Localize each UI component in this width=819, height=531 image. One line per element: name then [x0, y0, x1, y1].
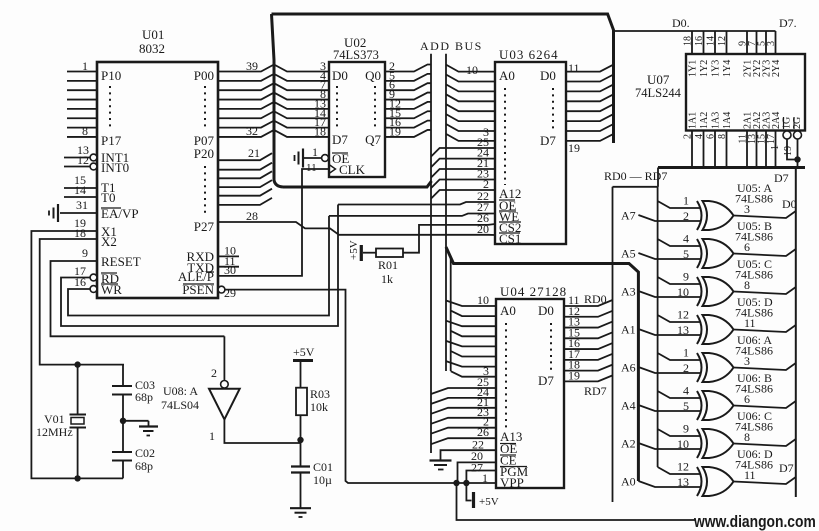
wire P12 stub — [67, 89, 97, 91]
capacitor C03 68p — [122, 365, 124, 386]
wire +5V to R01 — [363, 252, 376, 254]
wire P15 stub — [67, 117, 97, 119]
svg-text:2A4: 2A4 — [771, 112, 782, 129]
wire ADD bus to U03 A9 — [431, 159, 495, 168]
wire P03 to U02 D3 — [218, 93, 329, 100]
wire U04 D5 to read bus — [564, 354, 613, 360]
svg-text:D7: D7 — [538, 373, 554, 388]
svg-text:1: 1 — [209, 429, 215, 443]
svg-text:U04 27128: U04 27128 — [500, 284, 567, 299]
svg-text:Q0: Q0 — [365, 68, 381, 83]
svg-text:3: 3 — [744, 202, 750, 216]
svg-text:D0: D0 — [540, 68, 556, 83]
svg-text:31: 31 — [76, 198, 88, 212]
svg-text:Q7: Q7 — [365, 132, 381, 147]
wire U07 bottom pin to bus at x=747 — [746, 131, 748, 168]
svg-text:A3: A3 — [621, 285, 636, 299]
wire U07 bottom pin to bus at x=703.5 — [703, 131, 705, 168]
wire output of U05: A to D line — [734, 211, 796, 218]
svg-text:6: 6 — [744, 392, 750, 406]
wire ADD bus to U03 A2 — [446, 84, 495, 91]
U02 CLK triangle mark — [329, 165, 336, 174]
wire Q2 to ADD BUS — [385, 83, 431, 90]
bus thick link ADD BUS to XOR A-line — [446, 247, 638, 481]
wire P01 to U02 D1 — [218, 74, 329, 81]
wire U07 bottom pin to bus at x=756.5 — [756, 131, 758, 168]
svg-text:+5V: +5V — [479, 496, 499, 508]
wire VPP pin — [456, 482, 496, 484]
wire U08 output to RESET line — [223, 336, 225, 380]
svg-text:10µ: 10µ — [313, 473, 332, 487]
svg-text:1A1: 1A1 — [688, 112, 699, 129]
wire WR feed to U03 WE — [329, 214, 495, 216]
svg-text:D7: D7 — [774, 171, 789, 185]
wire X2 to crystal top — [40, 239, 124, 365]
wire Q6 to ADD BUS — [385, 121, 431, 128]
wire Q3 to ADD BUS — [385, 93, 431, 100]
svg-text:A6: A6 — [621, 361, 636, 375]
wire P11 stub — [67, 80, 97, 82]
wire INT0 stub — [64, 166, 90, 168]
wire R03 to node — [300, 415, 302, 440]
wire RD input to U05: A — [658, 201, 700, 208]
svg-text:2: 2 — [211, 366, 217, 380]
wire Q5 to ADD BUS — [385, 111, 431, 118]
bus bar RD right line — [657, 187, 659, 467]
pin bubble U02 OE — [322, 155, 329, 162]
wire ADD bus to U04 A6 — [446, 361, 496, 367]
bus U07 input bus (thick) to XOR outputs — [658, 166, 805, 169]
wire T1 stub — [64, 187, 97, 189]
pin bubble INT0 — [90, 163, 97, 170]
wire output of U06: D to D line — [734, 477, 796, 484]
op IC U03 6264 RAM body — [495, 62, 566, 244]
wire P13 stub — [67, 99, 97, 101]
op IC U02 74LS373 latch body — [329, 62, 385, 177]
wire WR from U01 to U03 WE — [68, 216, 329, 316]
pin bubble U08 output — [221, 381, 229, 389]
svg-text:9: 9 — [683, 422, 689, 436]
wire U04 D6 to read bus — [564, 365, 613, 371]
wire data bus to U07 pin at x=747 — [746, 31, 748, 54]
wire A input to U06: B — [638, 405, 701, 411]
wire ADD bus to U04 A7 — [451, 371, 496, 377]
wire A input to U05: C — [638, 291, 701, 297]
wire ADD bus to U04 A1 — [451, 311, 496, 317]
svg-text:R01: R01 — [378, 258, 398, 272]
svg-text:D7.: D7. — [779, 16, 797, 30]
wire ADD bus to U04 A3 — [451, 331, 496, 337]
wire ADD bus to U03 A5 — [446, 114, 495, 121]
bus bar RD top edge — [613, 186, 658, 188]
svg-text:A5: A5 — [621, 247, 636, 261]
svg-text:1A3: 1A3 — [711, 112, 722, 129]
wire T0 stub — [64, 196, 97, 198]
xor gate U06: D 74LS86 — [697, 467, 702, 496]
wire ADD bus to U04 A0 — [446, 301, 496, 307]
wire ADD bus to U03 A3 — [446, 94, 495, 101]
wire U07 bottom pin to bus at x=715 — [714, 131, 716, 168]
wire RD input to U05: C — [658, 277, 700, 284]
svg-text:1A4: 1A4 — [722, 112, 733, 129]
wire EA/VP stub — [60, 212, 97, 214]
wire U04 D7 to read bus — [564, 375, 613, 381]
wire P17 stub — [67, 136, 97, 138]
op IC U01 8032 microcontroller body — [97, 62, 218, 298]
inverter U08:A 74LS04 triangle — [209, 389, 240, 420]
power +5V at R01 (bar) — [360, 245, 363, 261]
svg-text:A7: A7 — [621, 209, 636, 223]
svg-text:V01: V01 — [44, 412, 65, 426]
wire INT1 stub — [64, 157, 90, 159]
wire U04 D3 to read bus — [564, 332, 613, 338]
wire RD input to U06: C — [658, 429, 700, 436]
wire ADD bus to U03 A10 — [431, 169, 495, 178]
svg-text:10: 10 — [477, 293, 489, 307]
wire A input to U05: D — [638, 329, 701, 335]
svg-text:74LS86: 74LS86 — [735, 344, 773, 358]
svg-text:8: 8 — [744, 430, 750, 444]
wire PSEN down to U04 CE/VPP rail — [225, 290, 456, 483]
wire output of U05: C to D line — [734, 287, 796, 294]
svg-text:10k: 10k — [310, 400, 328, 414]
svg-text:19: 19 — [568, 141, 580, 155]
svg-text:1: 1 — [683, 346, 689, 360]
svg-text:32: 32 — [246, 124, 258, 138]
svg-text:2Y4: 2Y4 — [771, 60, 782, 77]
wire RD input to U05: B — [658, 239, 700, 246]
svg-text:74LS86: 74LS86 — [735, 268, 773, 282]
node junction X2/crystal top — [74, 361, 80, 367]
svg-text:6: 6 — [744, 240, 750, 254]
wire Q4 to ADD BUS — [385, 102, 431, 109]
node junction PSEN/CE — [453, 480, 459, 486]
wire output of U05: B to D line — [734, 249, 796, 256]
U04 inner dashed ellipsis — [505, 323, 507, 430]
wire A input to U06: A — [638, 367, 701, 373]
wire RESET to inverter output — [51, 261, 225, 336]
pin bubble U07 1G — [783, 131, 791, 139]
wire U03 D0 to read bus — [566, 65, 613, 72]
svg-text:19: 19 — [783, 146, 794, 156]
crystal V01 12MHz — [77, 365, 79, 415]
svg-text:29: 29 — [224, 286, 236, 300]
wire RD input to U06: D — [658, 467, 700, 474]
wire U04 OE to ground — [441, 450, 497, 459]
svg-text:10: 10 — [466, 63, 478, 77]
wire address rail to U04 A12 — [431, 428, 496, 434]
wire U07 bottom pin to bus at x=692 — [691, 131, 693, 168]
svg-text:C02: C02 — [135, 446, 155, 460]
wire U04 D0 to read bus — [564, 300, 613, 306]
wire U07 bottom pin to bus at x=775.5 — [775, 131, 777, 168]
op IC U07 74LS244 buffer body — [686, 54, 805, 131]
wire data bus to U07 pin at x=715 — [714, 31, 716, 54]
svg-text:D7: D7 — [779, 461, 794, 475]
bus bar ADD BUS left line — [430, 54, 432, 453]
wire U03 D2 to read bus — [566, 85, 613, 92]
wire P25 stub into address trunk — [218, 198, 272, 205]
svg-text:A0: A0 — [500, 303, 516, 318]
svg-text:P20: P20 — [194, 146, 214, 161]
ground at crystal mid (right-pointing) — [123, 420, 149, 422]
svg-text:11: 11 — [306, 162, 317, 174]
svg-text:28: 28 — [246, 209, 258, 223]
wire P22 stub into address trunk — [218, 171, 272, 178]
wire P21 stub into address trunk — [218, 163, 272, 170]
op IC U04 27128 EPROM body — [496, 299, 564, 488]
wire ADD bus to U03 A1 — [446, 75, 495, 82]
svg-text:12: 12 — [677, 308, 689, 322]
xor gate U05: B 74LS86 — [697, 239, 702, 268]
wire RD feed to U03 OE — [338, 202, 495, 205]
bus XOR output vertical D line — [795, 168, 797, 498]
svg-text:11: 11 — [568, 61, 580, 75]
wire U08 input to RC node — [224, 419, 300, 443]
svg-text:R03: R03 — [310, 387, 330, 401]
svg-text:P10: P10 — [101, 68, 121, 83]
wire output of U06: A to D line — [734, 363, 796, 370]
wire RD input to U05: D — [658, 315, 700, 322]
wire bottom rail from PSEN junction — [457, 483, 696, 520]
svg-text:9: 9 — [683, 270, 689, 284]
svg-text:A0: A0 — [499, 68, 515, 83]
wire address rail to U04 A13 — [431, 438, 496, 444]
svg-text:U01: U01 — [142, 27, 164, 42]
wire output of U06: B to D line — [734, 401, 796, 408]
wire P02 to U02 D2 — [218, 83, 329, 90]
svg-text:INT0: INT0 — [101, 160, 129, 175]
wire U07 bottom pin to bus at x=726.5 — [726, 131, 728, 168]
wire ADD bus to U03 A4 — [446, 104, 495, 111]
node junction R03/C01/U08 — [297, 437, 303, 443]
svg-text:8: 8 — [744, 278, 750, 292]
ground at EA/VP (left-pointing) — [57, 204, 59, 222]
wire address rail to U04 A11 — [431, 418, 496, 424]
wire 2G down to read bus — [797, 139, 799, 168]
wire +5V tap at VPP — [466, 483, 471, 501]
wire P00 to U02 D0 — [218, 65, 329, 72]
svg-text:9: 9 — [82, 246, 88, 260]
wire U04 PGM to PSEN rail — [466, 471, 496, 484]
wire ADD bus to U04 A5 — [451, 351, 496, 357]
svg-text:CLK: CLK — [339, 162, 366, 177]
svg-text:11: 11 — [744, 316, 756, 330]
svg-text:4: 4 — [683, 232, 689, 246]
wire U04 D4 to read bus — [564, 343, 613, 349]
svg-text:19: 19 — [389, 124, 401, 138]
node junction X1/crystal bottom — [74, 475, 80, 481]
wire ADD bus to U03 A8 — [431, 148, 495, 157]
svg-text:A2: A2 — [621, 437, 636, 451]
wire Q1 to ADD BUS — [385, 74, 431, 81]
wire U03 D6 to read bus — [566, 125, 613, 132]
svg-text:U08: A: U08: A — [163, 384, 198, 398]
wire U04 D2 to read bus — [564, 322, 613, 328]
svg-text:RESET: RESET — [101, 254, 141, 269]
wire ADD bus to U04 A2 — [446, 321, 496, 327]
xor gate U06: A 74LS86 — [697, 353, 702, 382]
wire A input to U05: B — [638, 253, 701, 259]
capacitor C01 10u — [300, 440, 302, 467]
wire data bus to U07 pin at x=692 — [691, 31, 693, 54]
svg-text:D0: D0 — [538, 303, 554, 318]
wire A input to U05: A — [638, 215, 701, 221]
svg-text:C01: C01 — [313, 460, 333, 474]
xor gate U06: C 74LS86 — [697, 429, 702, 458]
svg-text:74LS04: 74LS04 — [161, 398, 199, 412]
svg-text:X2: X2 — [101, 234, 117, 249]
svg-text:+5V: +5V — [293, 345, 315, 359]
svg-text:D7: D7 — [332, 132, 348, 147]
wire P24 stub into address trunk — [218, 189, 272, 196]
bus bar RD left line — [612, 187, 614, 502]
svg-text:74LS244: 74LS244 — [635, 86, 682, 100]
svg-text:1Y1: 1Y1 — [688, 60, 699, 77]
wire output of U06: C to D line — [734, 439, 796, 446]
svg-text:D7: D7 — [540, 133, 556, 148]
resistor R01 1k — [376, 249, 403, 258]
wire Q7 to ADD BUS — [385, 130, 431, 137]
bus ADD pair line to U04 fan — [450, 258, 452, 371]
wire P16 stub — [67, 127, 97, 129]
wire C01 to ground — [300, 473, 302, 508]
svg-text:A4: A4 — [621, 399, 636, 413]
wire R01 pullup to U03 CS2 — [403, 224, 495, 253]
wire ADD bus to U03 A11 — [431, 180, 495, 189]
wire 1G to 2G tie — [787, 139, 798, 160]
svg-text:14: 14 — [74, 183, 86, 197]
wire A input to U06: C — [638, 443, 701, 449]
pin bubble U07 2G — [794, 131, 802, 139]
wire P06 to U02 D6 — [218, 121, 329, 128]
svg-text:68p: 68p — [135, 390, 153, 404]
svg-text:1A2: 1A2 — [699, 112, 710, 129]
wire U03 D7 to read bus — [566, 134, 613, 141]
svg-text:ADD BUS: ADD BUS — [420, 39, 483, 53]
svg-text:+5V: +5V — [348, 240, 360, 260]
node junction PGM/VPP — [463, 480, 469, 486]
wire data bus to U07 pin at x=775.5 — [775, 31, 777, 54]
wire P05 to U02 D5 — [218, 111, 329, 118]
svg-text:1: 1 — [312, 145, 318, 159]
wire U03 D3 to read bus — [566, 95, 613, 102]
wire output of U05: D to D line — [734, 325, 796, 332]
wire RD from U01 to U03 OE — [61, 205, 338, 327]
svg-text:74LS86: 74LS86 — [735, 420, 773, 434]
U02 inner dashed ellipsis — [336, 86, 338, 130]
svg-text:www.diangon.com: www.diangon.com — [693, 513, 816, 531]
svg-text:RD7: RD7 — [584, 384, 607, 398]
svg-text:30: 30 — [224, 263, 236, 277]
wire X1 to crystal bottom — [31, 231, 123, 478]
wire U03 D4 to read bus — [566, 105, 613, 112]
pin bubble RD — [90, 274, 97, 281]
wire RD input to U06: A — [658, 353, 700, 360]
wire data bus to U07 pin at x=766 — [765, 31, 767, 54]
wire P10 stub — [67, 71, 97, 73]
svg-text:1Y3: 1Y3 — [711, 60, 722, 77]
power +5V at VPP (bar) — [472, 492, 475, 508]
bus thick link P2 trunk into ADD BUS — [283, 181, 432, 187]
wire U04 CE to PSEN rail — [458, 462, 497, 483]
wire Q0 to ADD BUS — [385, 65, 431, 72]
svg-text:1k: 1k — [381, 272, 393, 286]
svg-text:A0: A0 — [621, 475, 636, 489]
pin bubble PSEN — [218, 286, 225, 293]
wire P07 to U02 D7 — [218, 130, 329, 137]
wire address rail to U04 A9 — [431, 398, 496, 404]
ground below C01 — [290, 507, 311, 509]
wire U07 bottom pin to bus at x=766 — [765, 131, 767, 168]
xor gate U05: D 74LS86 — [697, 315, 702, 344]
wire data bus to U07 pin at x=703.5 — [703, 31, 705, 54]
svg-text:68p: 68p — [135, 459, 153, 473]
svg-text:12: 12 — [77, 153, 89, 167]
xor gate U05: C 74LS86 — [697, 277, 702, 306]
wire ALE to U02 CLK — [218, 169, 329, 276]
wire ADD bus to U04 A4 — [446, 341, 496, 347]
svg-text:3: 3 — [744, 354, 750, 368]
wire ADD bus to U03 A6 — [446, 124, 495, 131]
svg-text:74LS86: 74LS86 — [735, 192, 773, 206]
wire P27 to U03 CS1 — [218, 222, 495, 235]
svg-text:1Y2: 1Y2 — [699, 60, 710, 77]
svg-text:19: 19 — [568, 368, 580, 382]
svg-text:74LS86: 74LS86 — [735, 382, 773, 396]
svg-text:74LS86: 74LS86 — [735, 230, 773, 244]
svg-text:12: 12 — [677, 460, 689, 474]
svg-text:U07: U07 — [647, 72, 670, 87]
resistor R03 10k — [296, 388, 307, 416]
U03 inner dashed ellipsis — [504, 88, 506, 185]
wire data bus to U07 pin at x=756.5 — [756, 31, 758, 54]
bus trunk P0 (thick vertical to top data line) — [272, 14, 284, 187]
svg-text:21: 21 — [248, 146, 260, 160]
wire P04 to U02 D4 — [218, 102, 329, 109]
svg-text:18: 18 — [74, 226, 86, 240]
wire address rail to U04 A10 — [431, 408, 496, 414]
pin bubble INT1 — [90, 154, 97, 161]
svg-text:P17: P17 — [101, 133, 122, 148]
bus top data line D0-D7 (thick) — [272, 14, 614, 143]
svg-text:D0: D0 — [332, 68, 348, 83]
svg-text:1: 1 — [683, 194, 689, 208]
svg-text:11: 11 — [744, 468, 756, 482]
svg-text:A1: A1 — [621, 323, 636, 337]
svg-text:12MHz: 12MHz — [36, 425, 73, 439]
wire A input to U06: D — [638, 481, 701, 487]
wire U03 D5 to read bus — [566, 115, 613, 122]
node junction 2G — [794, 156, 800, 162]
xor gate U06: B 74LS86 — [697, 391, 702, 420]
wire RD input to U06: B — [658, 391, 700, 398]
wire U02 OE to ground — [303, 157, 322, 159]
xor gate U05: A 74LS86 — [697, 201, 702, 230]
wire address rail to U04 A8 — [431, 388, 496, 394]
ground at U04 OE — [430, 459, 452, 461]
svg-text:18: 18 — [314, 124, 326, 138]
wire ADD bus to U03 A0 — [446, 65, 495, 72]
bus bar ADD BUS right line — [445, 54, 447, 371]
wire U04 D1 to read bus — [564, 311, 613, 317]
wire data bus to U07 pin at x=726.5 — [726, 31, 728, 54]
pin bubble WR — [90, 286, 97, 293]
svg-text:8: 8 — [82, 124, 88, 138]
svg-text:1Y4: 1Y4 — [722, 60, 733, 77]
svg-text:VPP: VPP — [500, 475, 524, 490]
svg-text:P27: P27 — [194, 219, 215, 234]
